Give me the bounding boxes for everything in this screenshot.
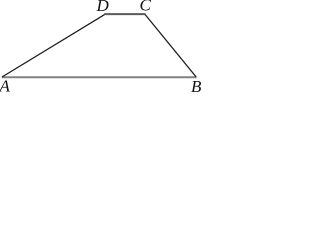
wire segment AB (bottom edge): [2, 76, 197, 78]
svg-text:D: D: [96, 0, 110, 15]
svg-text:C: C: [140, 0, 152, 15]
wire segment AD (left slant edge): [2, 15, 105, 77]
svg-text:A: A: [0, 77, 11, 94]
wire segment CB (right slant edge): [145, 15, 196, 77]
wire segment DC (top edge): [104, 13, 145, 15]
svg-text:B: B: [191, 77, 202, 93]
